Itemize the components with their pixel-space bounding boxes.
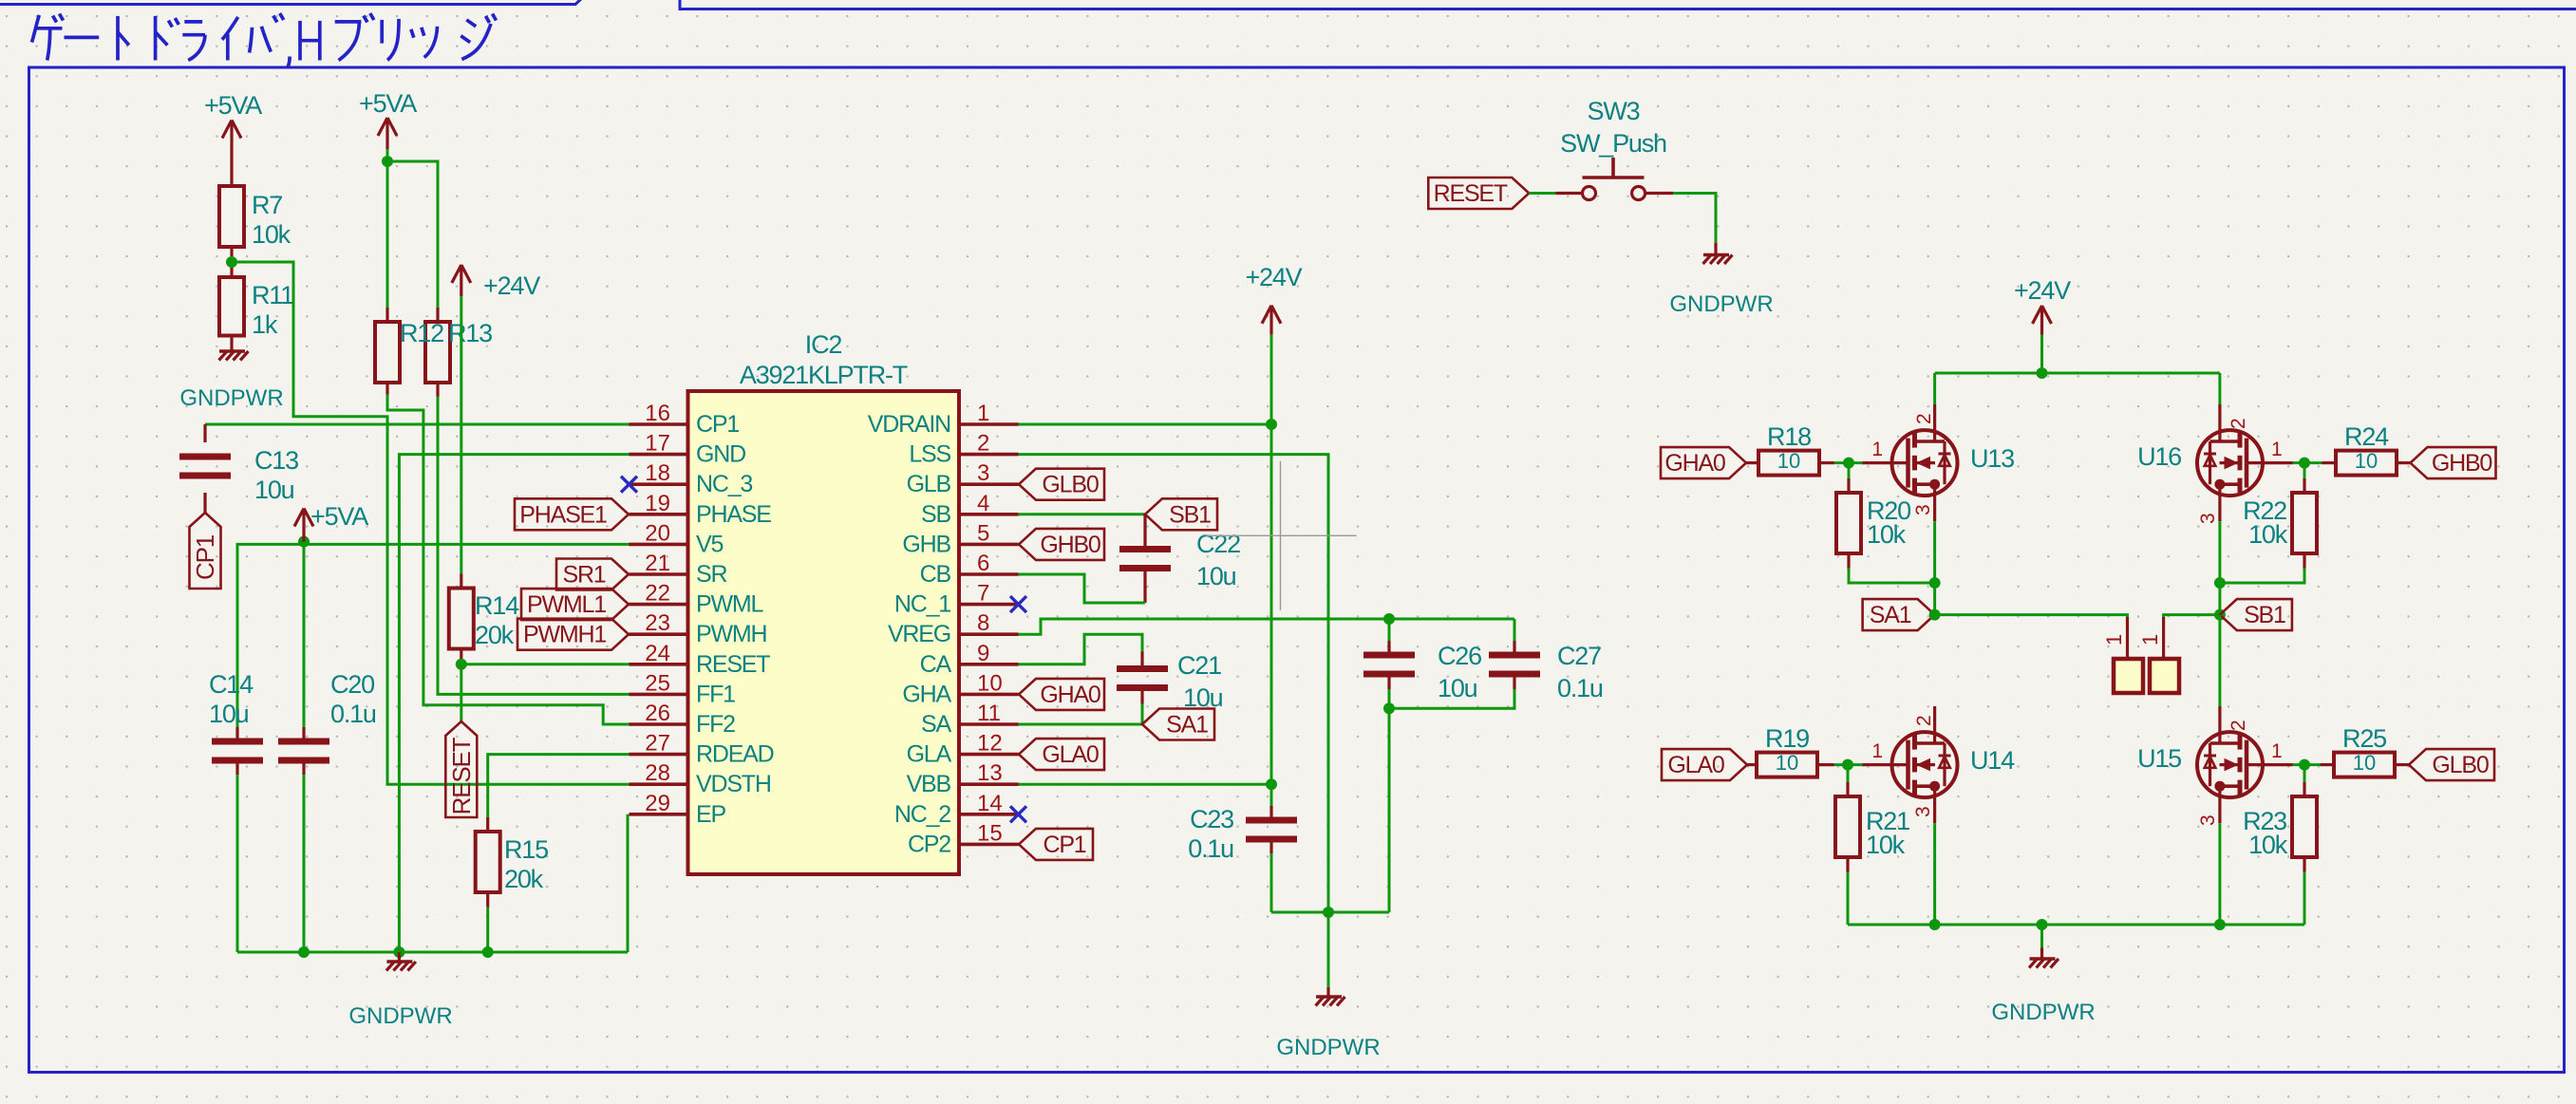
svg-text:10: 10 bbox=[977, 670, 1003, 696]
jumper JP2 pin bbox=[2162, 617, 2165, 676]
resistor R22 bottom pin bbox=[2303, 553, 2305, 569]
sheet frame top-left partial border bbox=[0, 0, 583, 5]
wire LSS pin 2 to ground rail bbox=[1019, 455, 1329, 912]
svg-text:R19: R19 bbox=[1765, 724, 1809, 753]
svg-text:R18: R18 bbox=[1767, 422, 1811, 451]
switch SW3 body bbox=[1583, 187, 1596, 200]
wire VBB pin 13 bbox=[1019, 783, 1272, 786]
resistor R23 bbox=[2292, 796, 2317, 857]
junction ground stem/rail bbox=[2037, 919, 2048, 930]
junction SB1 node bbox=[2214, 609, 2226, 621]
svg-text:1: 1 bbox=[1871, 439, 1883, 460]
svg-text:GNDPWR: GNDPWR bbox=[1276, 1035, 1380, 1060]
wire VREG pin 8 long rail bbox=[1019, 619, 1515, 634]
IC2 pin 4 (SB) bbox=[959, 513, 1019, 516]
global label CP1 (pin 15) bbox=[1019, 829, 1093, 860]
wire R21 to bottom rail bbox=[1847, 872, 1850, 926]
svg-text:22: 22 bbox=[645, 581, 670, 607]
capacitor C26 bbox=[1363, 652, 1415, 659]
capacitor C20 pins bbox=[302, 727, 305, 739]
svg-text:0.1u: 0.1u bbox=[1188, 834, 1233, 863]
svg-text:GND: GND bbox=[696, 441, 745, 468]
resistor R11 bbox=[219, 277, 244, 336]
svg-text:R14: R14 bbox=[475, 591, 519, 620]
svg-text:VDSTH: VDSTH bbox=[696, 771, 771, 797]
svg-text:FF1: FF1 bbox=[696, 681, 735, 707]
resistor R18 bbox=[1758, 451, 1819, 476]
svg-text:25: 25 bbox=[645, 670, 670, 696]
transistor Q U13 bbox=[1862, 404, 1958, 521]
svg-text:24: 24 bbox=[645, 641, 670, 666]
svg-text:VDRAIN: VDRAIN bbox=[868, 411, 950, 438]
svg-text:29: 29 bbox=[645, 791, 670, 816]
wire V5 pin 20 to C14/C20 bbox=[237, 544, 630, 727]
wire RESET label to SW3 bbox=[1529, 192, 1555, 195]
svg-text:FF2: FF2 bbox=[696, 711, 735, 738]
global label SB1 (H-bridge) bbox=[2220, 599, 2292, 630]
svg-text:0.1u: 0.1u bbox=[330, 700, 376, 728]
wire RDEAD pin 27 to R15 bbox=[488, 755, 630, 817]
svg-text:+5VA: +5VA bbox=[310, 502, 368, 531]
svg-text:VREG: VREG bbox=[888, 621, 950, 647]
svg-text:EP: EP bbox=[696, 801, 725, 828]
wire +24V rail down to VBB/C23 bbox=[1270, 335, 1273, 806]
svg-text:C21: C21 bbox=[1177, 651, 1221, 680]
wire RESET pin 24 bbox=[461, 663, 630, 665]
resistor R19 pins bbox=[1747, 763, 1757, 766]
wire SB1 to jumper 2 bbox=[2164, 615, 2220, 617]
svg-text:RESET: RESET bbox=[696, 651, 770, 678]
svg-text:2: 2 bbox=[2228, 418, 2249, 429]
svg-text:20k: 20k bbox=[475, 621, 515, 649]
ground GNDPWR (left rail) bbox=[398, 952, 401, 962]
svg-text:GLA0: GLA0 bbox=[1667, 752, 1723, 778]
svg-text:10k: 10k bbox=[2248, 520, 2288, 549]
svg-text:GHB0: GHB0 bbox=[2432, 450, 2492, 477]
svg-text:U14: U14 bbox=[1970, 746, 2015, 775]
capacitor C26 pins bbox=[1388, 619, 1391, 641]
capacitor C20 bbox=[278, 739, 329, 745]
IC2 pin 13 (VBB) bbox=[959, 782, 1019, 786]
svg-text:PWML: PWML bbox=[696, 591, 763, 618]
svg-text:SW_Push: SW_Push bbox=[1560, 129, 1666, 158]
global label SR1 bbox=[556, 559, 629, 590]
resistor R24 bbox=[2336, 451, 2397, 476]
svg-text:1: 1 bbox=[2271, 740, 2283, 762]
wire junction down to R21 bbox=[1847, 765, 1850, 782]
svg-text:NC_3: NC_3 bbox=[696, 471, 752, 497]
junction LSS/ground rail bbox=[1323, 907, 1334, 918]
no-connect pin 7 bbox=[1010, 596, 1026, 612]
svg-text:SW3: SW3 bbox=[1588, 97, 1640, 125]
svg-text:19: 19 bbox=[645, 491, 670, 516]
wire left bottom ground rail bbox=[237, 951, 628, 954]
no-connect pin 18 bbox=[621, 477, 637, 493]
svg-text:LSS: LSS bbox=[909, 441, 950, 468]
wire junction down to R20 bbox=[1848, 463, 1851, 478]
wire R20 to U13 source bbox=[1849, 569, 1935, 584]
svg-text:SA: SA bbox=[921, 711, 951, 738]
wire U15 gate to junction bbox=[2293, 763, 2305, 766]
svg-text:GHA0: GHA0 bbox=[1040, 682, 1100, 708]
svg-text:SA1: SA1 bbox=[1166, 712, 1208, 739]
svg-text:+24V: +24V bbox=[2014, 276, 2071, 305]
svg-text:U16: U16 bbox=[2137, 442, 2181, 471]
svg-text:2: 2 bbox=[2228, 720, 2249, 731]
wire C21 bottom to SA pin 11 bbox=[1141, 704, 1144, 725]
wire C26/C27 bottoms bbox=[1389, 689, 1514, 708]
wire CB pin 6 to C22 bottom bbox=[1019, 574, 1146, 603]
wire SB pin 4 to SB1/C22 bbox=[1019, 513, 1146, 515]
wire +5VA junction down to C20 bbox=[303, 542, 306, 727]
svg-text:14: 14 bbox=[977, 791, 1003, 816]
global label GLA0 bbox=[1019, 739, 1104, 770]
svg-text:1: 1 bbox=[1871, 740, 1883, 762]
svg-text:10: 10 bbox=[1777, 449, 1800, 473]
wire junction to RESET label bbox=[460, 664, 462, 721]
IC2 pin 28 (VDSTH) bbox=[630, 782, 688, 786]
capacitor C21 bbox=[1117, 665, 1168, 672]
wire junction down to R23 bbox=[2303, 765, 2306, 782]
resistor R15 bbox=[476, 832, 500, 892]
junction R14/RESET bbox=[456, 659, 467, 670]
svg-text:PHASE1: PHASE1 bbox=[519, 501, 607, 528]
resistor R19 bbox=[1757, 753, 1817, 777]
svg-text:26: 26 bbox=[645, 701, 670, 726]
power +24V (at R14) bbox=[460, 265, 462, 296]
svg-text:13: 13 bbox=[977, 760, 1003, 786]
resistor R24 pins bbox=[2304, 461, 2322, 464]
svg-text:1: 1 bbox=[2271, 439, 2283, 460]
IC2 pin 23 (PWMH) bbox=[630, 632, 688, 636]
svg-text:28: 28 bbox=[645, 760, 670, 786]
junction R22/U16 source bbox=[2214, 577, 2226, 589]
wire R22 to U16 source bbox=[2220, 569, 2304, 584]
IC2 pin 21 (SR) bbox=[630, 572, 688, 576]
IC2 pin 27 (RDEAD) bbox=[630, 753, 688, 757]
resistor R21 bottom pin bbox=[1846, 857, 1849, 872]
svg-text:CP1: CP1 bbox=[696, 411, 739, 438]
global label GHA0 bbox=[1019, 679, 1104, 710]
IC2 pin 19 (PHASE) bbox=[630, 513, 688, 516]
global label GHB0 bbox=[2411, 447, 2496, 478]
wire +24V to drain rail bbox=[2040, 335, 2043, 374]
svg-text:CP1: CP1 bbox=[191, 534, 219, 580]
capacitor C13 pins bbox=[203, 424, 206, 442]
svg-text:3: 3 bbox=[2197, 814, 2219, 826]
svg-text:C13: C13 bbox=[254, 446, 298, 475]
power +24V (middle) bbox=[1269, 306, 1272, 335]
wire rail to U16 drain bbox=[2218, 373, 2221, 404]
svg-text:GLB: GLB bbox=[907, 471, 951, 497]
wire SA1 to jumper 1 bbox=[1935, 615, 2128, 617]
svg-text:C22: C22 bbox=[1196, 530, 1240, 558]
junction C26 bottom bbox=[1383, 702, 1395, 714]
svg-text:R24: R24 bbox=[2344, 422, 2389, 451]
wire EP pin 29 down to rail bbox=[627, 814, 630, 952]
junction U16 gate/R24/R22 bbox=[2299, 458, 2310, 469]
capacitor C22 pins bbox=[1143, 515, 1146, 546]
transistor Q U15 (mirrored) bbox=[2197, 706, 2293, 823]
svg-text:20k: 20k bbox=[504, 865, 544, 893]
svg-text:10u: 10u bbox=[254, 476, 294, 504]
svg-text:R13: R13 bbox=[448, 319, 492, 347]
svg-text:3: 3 bbox=[2197, 513, 2219, 524]
IC2 pin 10 (GHA) bbox=[959, 693, 1019, 697]
svg-text:RESET: RESET bbox=[1434, 180, 1508, 207]
wire rail to U13 drain bbox=[1933, 373, 1936, 404]
svg-text:15: 15 bbox=[977, 820, 1003, 846]
IC2 pin 6 (CB) bbox=[959, 572, 1019, 576]
resistor R20 bbox=[1836, 493, 1861, 553]
svg-text:1: 1 bbox=[977, 401, 989, 426]
svg-text:10u: 10u bbox=[1438, 674, 1477, 702]
junction C20/rail bbox=[298, 946, 310, 958]
svg-text:A3921KLPTR-T: A3921KLPTR-T bbox=[740, 361, 908, 389]
resistor R13 pins bbox=[436, 308, 439, 322]
svg-text:11: 11 bbox=[977, 701, 1001, 726]
svg-text:1: 1 bbox=[2138, 634, 2162, 646]
svg-text:CP2: CP2 bbox=[908, 831, 950, 857]
transistor Q U14 bbox=[1862, 706, 1958, 823]
svg-text:R15: R15 bbox=[504, 835, 548, 864]
no-connect pin 14 bbox=[1010, 806, 1026, 822]
svg-text:GHA: GHA bbox=[902, 681, 951, 707]
global label PWMH1 bbox=[517, 619, 629, 650]
IC2 pin 25 (FF1) bbox=[630, 693, 688, 697]
resistor R20 bottom pin bbox=[1847, 553, 1850, 569]
wire R18 to U13 gate bbox=[1834, 461, 1863, 464]
resistor R22 bbox=[2292, 493, 2317, 553]
power +5VA (at R12/R13) bbox=[385, 118, 388, 149]
global label RESET (at SW3) bbox=[1428, 178, 1529, 209]
wire U14 source down bbox=[1933, 823, 1936, 925]
svg-text:R25: R25 bbox=[2342, 724, 2386, 753]
svg-text:GNDPWR: GNDPWR bbox=[179, 385, 283, 411]
ground GNDPWR (at SW3) bbox=[1714, 243, 1717, 255]
svg-text:+5VA: +5VA bbox=[359, 89, 417, 118]
svg-text:9: 9 bbox=[977, 641, 989, 666]
global label GHA0 (H-bridge) bbox=[1661, 447, 1746, 478]
junction R7/R11 divider bbox=[226, 256, 237, 268]
svg-text:1: 1 bbox=[2102, 634, 2126, 646]
svg-text:R7: R7 bbox=[252, 191, 282, 219]
svg-text:IC2: IC2 bbox=[805, 330, 842, 359]
wire CA pin 9 to C21 bbox=[1019, 634, 1143, 664]
svg-text:10k: 10k bbox=[1867, 520, 1907, 549]
IC2 pin 26 (FF2) bbox=[630, 722, 688, 726]
wire SW3 to ground bbox=[1673, 194, 1716, 243]
wire C26 bottom down to ground rail bbox=[1388, 708, 1391, 912]
resistor R12 bbox=[375, 322, 400, 383]
capacitor C27 pins bbox=[1514, 619, 1516, 641]
svg-text:+24V: +24V bbox=[1245, 263, 1302, 291]
svg-text:3: 3 bbox=[1912, 806, 1934, 817]
IC2 pin 15 (CP2) bbox=[959, 843, 1019, 847]
svg-text:SB1: SB1 bbox=[1169, 501, 1211, 528]
resistor R15 pins bbox=[486, 817, 489, 832]
global label PHASE1 bbox=[515, 498, 629, 530]
resistor R18 pins bbox=[1746, 461, 1758, 464]
svg-text:R11: R11 bbox=[252, 281, 293, 309]
svg-text:PWMH: PWMH bbox=[696, 621, 766, 647]
wire +24V down to R14 bbox=[460, 296, 462, 574]
svg-text:GNDPWR: GNDPWR bbox=[348, 1003, 452, 1029]
wire U15 source down bbox=[2218, 823, 2221, 925]
junction U15 source/rail bbox=[2214, 919, 2226, 930]
capacitor C27 bbox=[1489, 652, 1540, 659]
global label RESET (vertical) bbox=[445, 721, 477, 817]
svg-text:GLB0: GLB0 bbox=[1042, 472, 1098, 498]
IC2 pin 16 (CP1) bbox=[630, 422, 688, 426]
wire R23 to bottom rail bbox=[2303, 872, 2306, 926]
wire H-bridge bottom rail bbox=[1848, 924, 2304, 926]
IC2 pin 5 (GHB) bbox=[959, 543, 1019, 547]
global label SA1 (H-bridge) bbox=[1863, 599, 1935, 630]
svg-text:23: 23 bbox=[645, 610, 670, 636]
global label CP1 (below C13) bbox=[190, 513, 221, 589]
svg-text:16: 16 bbox=[645, 401, 670, 426]
wire U16 gate to junction bbox=[2293, 461, 2305, 464]
svg-text:27: 27 bbox=[645, 731, 670, 757]
capacitor C23 pins bbox=[1269, 806, 1272, 817]
svg-text:3: 3 bbox=[1912, 504, 1934, 515]
jumper JP1 pad bbox=[2114, 659, 2143, 693]
global label PWML1 bbox=[521, 589, 629, 620]
svg-text:GHA0: GHA0 bbox=[1664, 450, 1725, 477]
svg-text:1k: 1k bbox=[252, 310, 278, 339]
power +24V (H-bridge) bbox=[2040, 306, 2043, 335]
svg-text:GHB0: GHB0 bbox=[1040, 532, 1100, 558]
ground GNDPWR (H-bridge) bbox=[2040, 925, 2043, 948]
svg-text:5: 5 bbox=[977, 520, 989, 546]
IC2 pin 1 (VDRAIN) bbox=[959, 422, 1019, 426]
jumper JP1 pin bbox=[2126, 617, 2129, 676]
junction SA1 node bbox=[1929, 609, 1941, 621]
wire U13 source down bbox=[1933, 521, 1936, 614]
junction V5/+5VA/C20 bbox=[298, 536, 310, 548]
wire C23 to ground rail bbox=[1270, 853, 1273, 912]
global label GLB0 bbox=[2409, 749, 2494, 780]
IC2 pin 20 (V5) bbox=[630, 543, 688, 547]
IC2 pin 29 (EP) bbox=[630, 813, 688, 816]
resistor R14 pins bbox=[460, 574, 462, 589]
svg-text:VBB: VBB bbox=[907, 771, 951, 797]
power +5VA (at C20) bbox=[302, 509, 305, 542]
IC2 pin 9 (CA) bbox=[959, 663, 1019, 666]
svg-text:U15: U15 bbox=[2137, 744, 2181, 773]
svg-text:21: 21 bbox=[645, 551, 670, 576]
IC2 pin 22 (PWML) bbox=[630, 603, 688, 607]
svg-text:10k: 10k bbox=[252, 220, 291, 249]
wire H-bridge drain rail bbox=[1935, 372, 2220, 375]
svg-text:8: 8 bbox=[977, 610, 989, 636]
wire R12 to FF2 pin 26 bbox=[387, 395, 630, 725]
svg-text:GNDPWR: GNDPWR bbox=[1669, 291, 1773, 317]
svg-text:7: 7 bbox=[977, 581, 989, 607]
svg-text:10k: 10k bbox=[1866, 831, 1906, 859]
svg-text:10u: 10u bbox=[1196, 562, 1236, 590]
resistor R25 pins bbox=[2304, 763, 2321, 766]
sheet frame top-right partial border bbox=[680, 0, 2576, 9]
junction R20/U13 source bbox=[1929, 577, 1941, 589]
svg-text:SR: SR bbox=[696, 561, 726, 588]
svg-text:10u: 10u bbox=[209, 700, 249, 728]
junction VBB/+24V/C23 bbox=[1266, 778, 1277, 790]
IC2 pin 11 (SA) bbox=[959, 722, 1019, 726]
junction +5VA/R12/R13 bbox=[382, 156, 393, 167]
svg-text:18: 18 bbox=[645, 460, 670, 486]
junction R19/R21/U14 gate bbox=[1842, 759, 1853, 771]
svg-text:17: 17 bbox=[645, 431, 670, 457]
IC2 pin 18 (NC_3) bbox=[630, 482, 688, 486]
resistor R12 pins bbox=[385, 308, 388, 322]
svg-text:4: 4 bbox=[977, 491, 989, 516]
svg-text:C27: C27 bbox=[1557, 642, 1601, 670]
wire GND pin 17 to bottom rail bbox=[399, 455, 629, 952]
junction +24V/drain rail bbox=[2037, 367, 2048, 379]
global label GLB0 bbox=[1019, 469, 1104, 500]
capacitor C21 pins bbox=[1140, 652, 1143, 666]
junction VREG/C26 bbox=[1383, 613, 1395, 625]
IC2 pin 12 (GLA) bbox=[959, 753, 1019, 757]
resistor R7 bbox=[219, 186, 244, 247]
sheet title text (Japanese) bbox=[32, 13, 497, 66]
svg-text:SA1: SA1 bbox=[1870, 602, 1911, 628]
resistor R21 bbox=[1835, 796, 1860, 857]
svg-text:PHASE: PHASE bbox=[696, 501, 771, 528]
svg-text:PWML1: PWML1 bbox=[527, 591, 606, 618]
IC2 pin 24 (RESET) bbox=[630, 663, 688, 666]
svg-text:+24V: +24V bbox=[483, 271, 540, 300]
svg-text:GLB0: GLB0 bbox=[2432, 752, 2488, 778]
junction R18/R20/U13 gate bbox=[1843, 458, 1854, 469]
svg-text:V5: V5 bbox=[696, 531, 723, 557]
svg-text:3: 3 bbox=[977, 460, 989, 486]
wire U16 source down bbox=[2218, 521, 2221, 614]
jumper JP2 pad bbox=[2150, 659, 2179, 693]
svg-text:GLA: GLA bbox=[907, 741, 952, 768]
svg-text:GNDPWR: GNDPWR bbox=[1991, 1000, 2095, 1025]
wire C14 to bottom rail bbox=[236, 775, 239, 952]
svg-text:RDEAD: RDEAD bbox=[696, 741, 774, 768]
IC2 pin 7 (NC_1) bbox=[959, 603, 1019, 607]
ground GNDPWR (middle) bbox=[1327, 912, 1330, 987]
transistor Q U16 (mirrored) bbox=[2197, 404, 2293, 521]
resistor R23 bottom pin bbox=[2303, 857, 2305, 872]
resistor R14 bbox=[449, 589, 474, 649]
svg-text:10: 10 bbox=[2355, 449, 2378, 473]
wire C20 to bottom rail bbox=[303, 775, 306, 952]
svg-text:NC_1: NC_1 bbox=[894, 591, 950, 618]
svg-text:PWMH1: PWMH1 bbox=[523, 622, 606, 648]
wire middle ground rail bbox=[1271, 911, 1389, 914]
svg-text:10: 10 bbox=[2353, 751, 2376, 775]
resistor R25 bbox=[2334, 753, 2395, 777]
svg-text:2: 2 bbox=[977, 431, 989, 457]
svg-text:C23: C23 bbox=[1190, 805, 1233, 833]
svg-text:C20: C20 bbox=[330, 670, 374, 699]
power +5VA (at R7) bbox=[230, 121, 233, 152]
svg-text:CB: CB bbox=[920, 561, 951, 588]
svg-text:U13: U13 bbox=[1970, 444, 2014, 473]
capacitor C22 bbox=[1119, 546, 1171, 552]
svg-text:SB: SB bbox=[921, 501, 950, 528]
svg-text:SB1: SB1 bbox=[2244, 602, 2285, 628]
svg-text:+5VA: +5VA bbox=[204, 91, 262, 120]
svg-text:20: 20 bbox=[645, 520, 670, 546]
resistor R11 pins bbox=[230, 262, 233, 277]
